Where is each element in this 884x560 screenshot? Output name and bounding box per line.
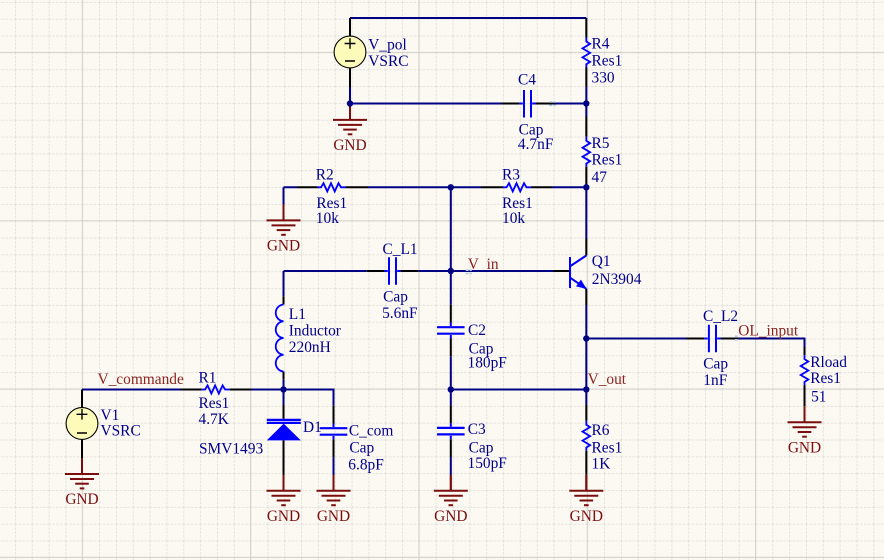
svg-text:220nH: 220nH xyxy=(289,339,331,356)
svg-text:Rload: Rload xyxy=(810,354,847,371)
capacitor C2 xyxy=(437,305,465,357)
svg-text:1nF: 1nF xyxy=(703,372,727,389)
svg-text:330: 330 xyxy=(592,70,615,87)
inductor L1 xyxy=(276,296,284,380)
svg-text:180pF: 180pF xyxy=(468,355,507,372)
wire: L1 column top xyxy=(283,271,285,296)
svg-text:C2: C2 xyxy=(468,322,486,339)
voltage source V1 xyxy=(66,390,98,459)
svg-text:GND: GND xyxy=(65,491,98,508)
svg-text:VSRC: VSRC xyxy=(101,422,141,439)
wire: R2 row xyxy=(284,186,451,188)
junction dot V_in/C_L1/C2 xyxy=(448,268,454,274)
svg-text:Res1: Res1 xyxy=(199,395,230,412)
svg-text:C_com: C_com xyxy=(349,423,393,440)
svg-text:Cap: Cap xyxy=(349,440,374,457)
resistor Rload xyxy=(801,347,809,406)
svg-text:L1: L1 xyxy=(289,306,306,323)
wire: C_com bottom xyxy=(333,457,335,475)
wire: C4 row right xyxy=(555,103,587,105)
wire: V1 riser xyxy=(81,390,83,402)
wire: C3 top drop xyxy=(450,390,452,406)
resistor R3 xyxy=(481,183,552,191)
compile marker near C4 pin xyxy=(549,102,555,105)
wire: R6 top xyxy=(585,390,587,406)
capacitor C3 xyxy=(437,405,465,457)
svg-text:Res1: Res1 xyxy=(592,152,623,169)
svg-text:GND: GND xyxy=(434,508,467,525)
ground below V_pol xyxy=(349,104,351,120)
svg-text:R4: R4 xyxy=(592,35,610,52)
svg-text:C_L1: C_L1 xyxy=(383,241,418,258)
svg-text:D1: D1 xyxy=(303,419,322,436)
compile marker near V_in xyxy=(466,270,472,273)
wire: mid column C2 to Vout row xyxy=(450,356,452,389)
wire: emitter to C_L2 junction and V_out row xyxy=(585,305,587,390)
junction dot C4/R4/R5 xyxy=(583,100,589,106)
svg-text:Cap: Cap xyxy=(383,289,408,306)
wire: C_L1 row right / V_in to base xyxy=(418,270,553,272)
junction dot L1/R1/D1/C_com xyxy=(280,386,286,392)
capacitor C_L1 xyxy=(367,257,418,285)
ground below R2 xyxy=(283,204,285,220)
wire: mid column R2row to C2 xyxy=(450,187,452,304)
wire: V_out row horizontal xyxy=(451,389,587,391)
capacitor C_com xyxy=(320,406,348,458)
svg-text:V_out: V_out xyxy=(588,371,627,388)
resistor R4 xyxy=(583,18,591,87)
svg-text:R3: R3 xyxy=(502,167,520,184)
svg-text:6.8pF: 6.8pF xyxy=(348,456,384,473)
voltage source V_pol xyxy=(334,18,366,88)
svg-text:C3: C3 xyxy=(468,421,486,438)
svg-text:10k: 10k xyxy=(502,210,525,227)
capacitor C_L2 xyxy=(687,325,739,353)
junction dot emitter/C_L2 xyxy=(583,335,589,341)
ground below Rload xyxy=(804,406,806,422)
junction dot C2/C3/V_out xyxy=(448,386,454,392)
svg-text:51: 51 xyxy=(811,389,826,406)
wire: R2 corner to GND drop xyxy=(283,187,285,205)
svg-text:SMV1493: SMV1493 xyxy=(199,441,263,458)
ground below D1 xyxy=(283,476,285,491)
junction dot R3/R5/collector xyxy=(583,184,589,190)
svg-text:VSRC: VSRC xyxy=(368,53,408,70)
resistor R5 xyxy=(583,117,591,188)
svg-text:GND: GND xyxy=(788,439,821,456)
svg-text:47: 47 xyxy=(592,169,608,186)
wire: R5 to collector junction xyxy=(585,187,587,239)
svg-text:R2: R2 xyxy=(316,166,334,183)
wire: C4 row left xyxy=(350,103,502,105)
capacitor C4 xyxy=(502,90,555,118)
svg-text:Res1: Res1 xyxy=(810,370,841,387)
svg-text:10k: 10k xyxy=(316,210,339,227)
svg-text:Cap: Cap xyxy=(703,356,728,373)
junction dot R2/R3/mid column xyxy=(448,184,454,190)
wire: R4-R5 column xyxy=(585,87,587,117)
svg-text:GND: GND xyxy=(317,508,350,525)
svg-text:GND: GND xyxy=(267,508,300,525)
junction dot V_out/R6 xyxy=(583,386,589,392)
svg-text:Inductor: Inductor xyxy=(289,323,341,340)
svg-text:GND: GND xyxy=(333,137,366,154)
compile marker near C_L2 xyxy=(735,336,738,340)
ground below R6 xyxy=(585,475,587,491)
ground below C_com xyxy=(333,476,335,491)
svg-text:1K: 1K xyxy=(592,455,611,472)
wire: V_pol bottom to junction xyxy=(349,88,351,104)
wire: D1 drop xyxy=(283,390,285,405)
resistor R6 xyxy=(583,405,591,475)
svg-text:V_pol: V_pol xyxy=(368,37,406,54)
resistor R2 xyxy=(297,183,368,191)
svg-text:Cap: Cap xyxy=(469,439,494,456)
svg-text:Res1: Res1 xyxy=(592,53,623,70)
svg-text:GND: GND xyxy=(267,237,300,254)
svg-text:R6: R6 xyxy=(592,422,610,439)
svg-text:2N3904: 2N3904 xyxy=(592,271,642,288)
resistor R1 xyxy=(181,385,252,393)
wire: V_commande row xyxy=(82,389,284,391)
svg-text:GND: GND xyxy=(570,508,603,525)
ground below C3 xyxy=(450,476,452,491)
svg-text:C_L2: C_L2 xyxy=(703,308,738,325)
diode D1 xyxy=(267,405,301,476)
ground below V1 xyxy=(81,458,83,474)
svg-text:5.6nF: 5.6nF xyxy=(382,305,418,322)
transistor Q1 xyxy=(554,239,587,306)
svg-text:4.7nF: 4.7nF xyxy=(518,136,554,153)
svg-text:R5: R5 xyxy=(592,135,610,152)
wire: R3 row xyxy=(451,186,587,188)
junction dot V_pol/C4 xyxy=(347,100,353,106)
svg-text:R1: R1 xyxy=(199,370,217,387)
wire: C_L2 row right to Rload corner xyxy=(738,339,804,348)
svg-text:OL_input: OL_input xyxy=(738,323,799,340)
svg-text:150pF: 150pF xyxy=(468,455,507,472)
wire: C3 bottom xyxy=(450,457,452,476)
svg-text:V_commande: V_commande xyxy=(98,371,185,388)
wire: top horizontal V_pol to R4 xyxy=(350,17,586,19)
svg-text:C4: C4 xyxy=(518,72,536,89)
svg-text:Q1: Q1 xyxy=(592,253,611,270)
svg-text:Res1: Res1 xyxy=(592,439,623,456)
wire: C_L2 row left xyxy=(586,338,686,340)
wire: L1 bottom to junction xyxy=(283,380,285,390)
wire: C_L1 row left xyxy=(284,270,367,272)
svg-text:4.7K: 4.7K xyxy=(199,411,229,428)
wire: junction to C_com corner xyxy=(284,390,334,406)
